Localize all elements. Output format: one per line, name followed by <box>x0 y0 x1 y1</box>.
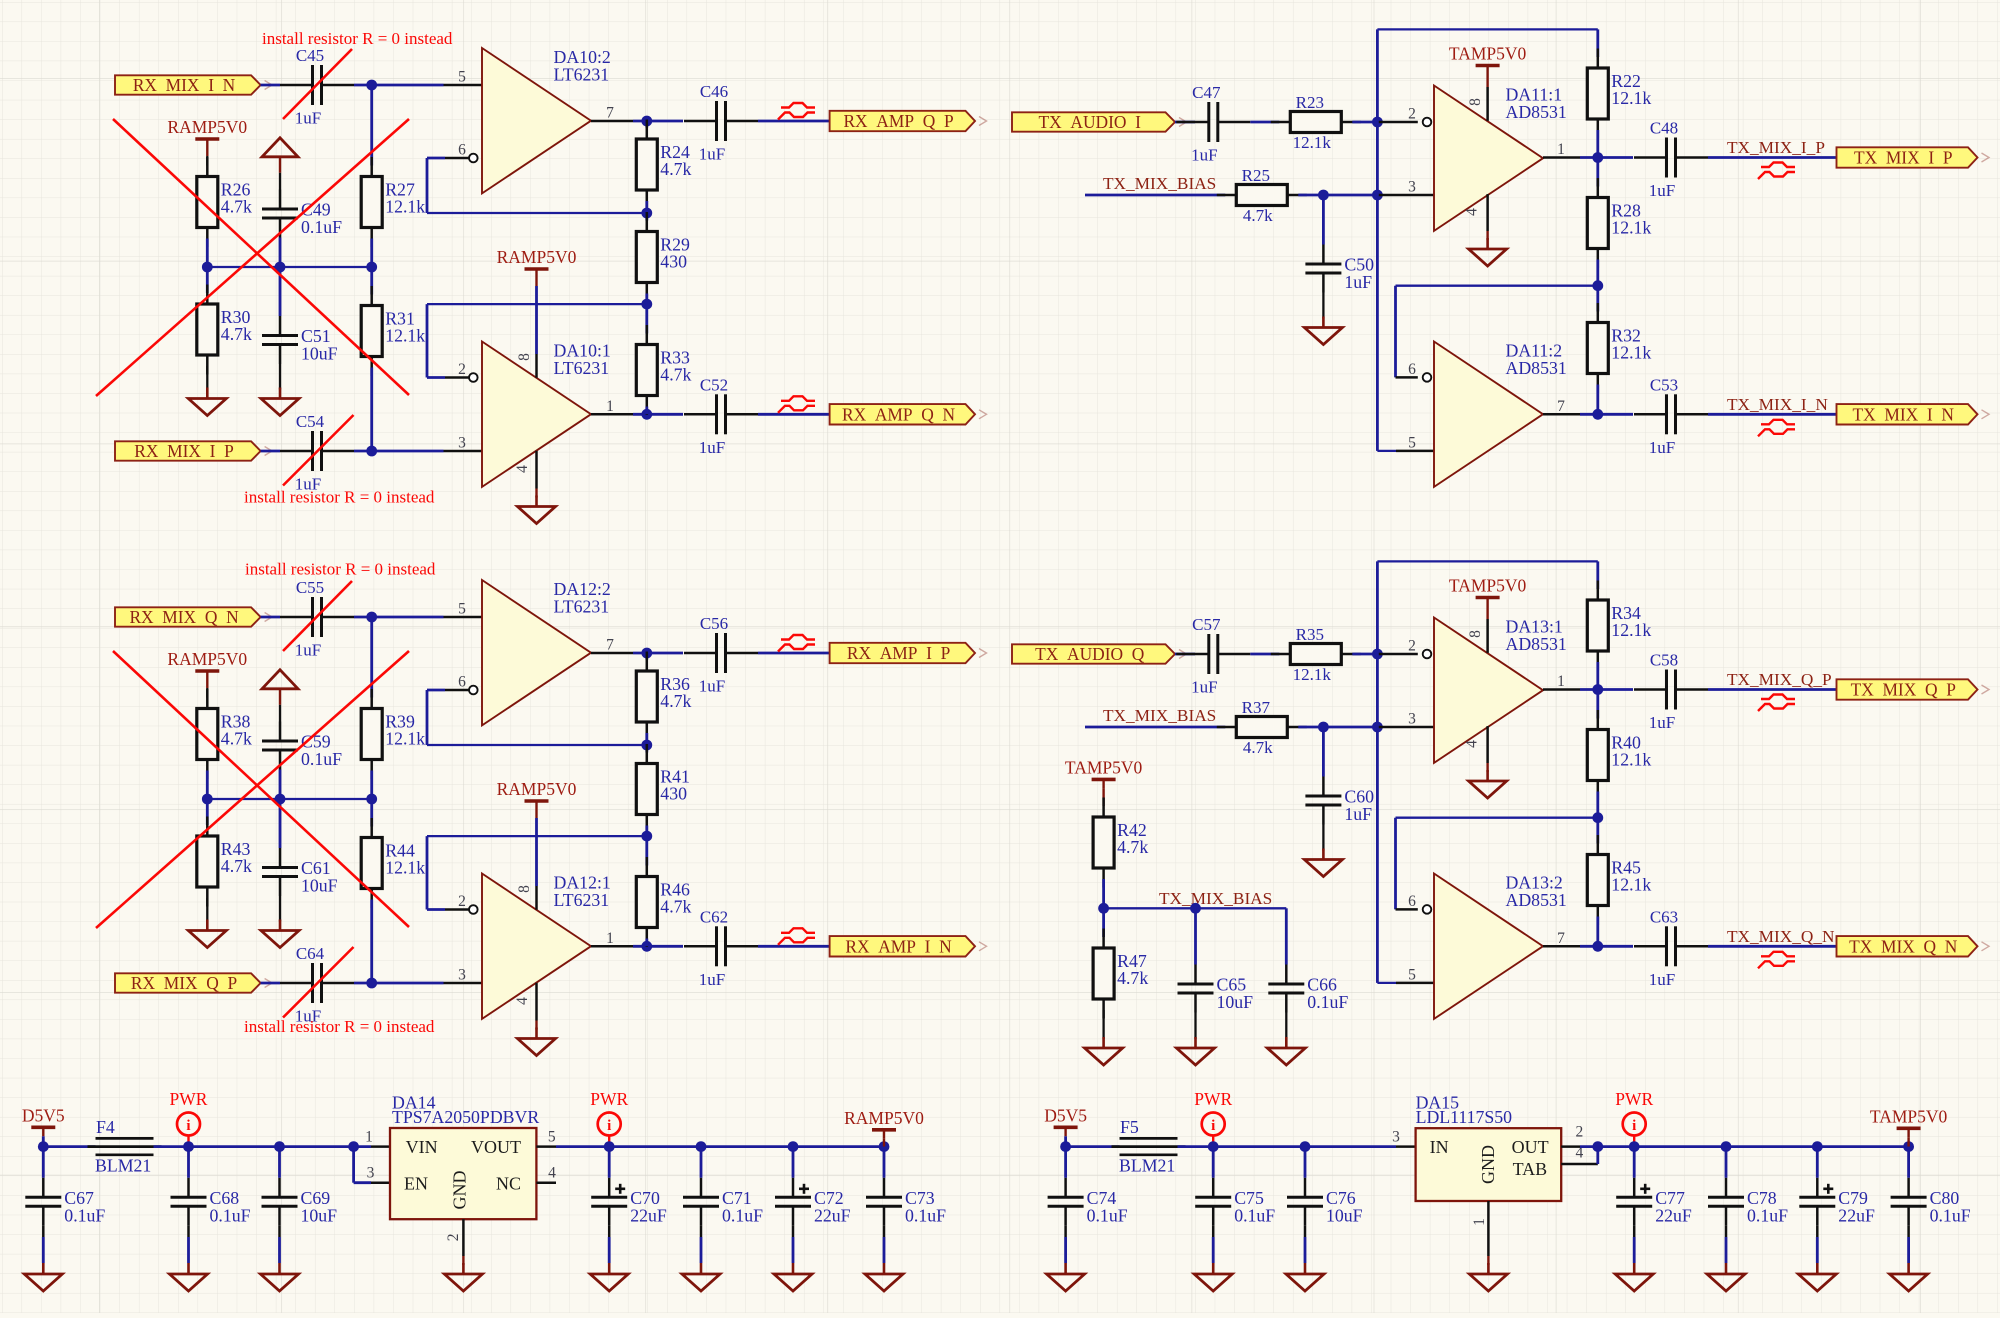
pin 3 wire <box>444 450 483 453</box>
svg-text:TAMP5V0: TAMP5V0 <box>1449 44 1527 64</box>
wire <box>1708 156 1837 159</box>
differential pair directive <box>1758 420 1795 437</box>
slash through C54 <box>283 415 354 486</box>
svg-text:0.1uF: 0.1uF <box>1747 1205 1788 1225</box>
ferrite bead F5 <box>1112 1117 1186 1176</box>
capacitor C61 <box>262 848 338 896</box>
junction <box>879 1141 890 1152</box>
junction <box>641 941 652 952</box>
svg-text:10uF: 10uF <box>1217 992 1254 1012</box>
svg-text:12.1k: 12.1k <box>1293 133 1332 152</box>
svg-text:RX AMP Q N: RX AMP Q N <box>842 404 955 424</box>
svg-text:C57: C57 <box>1192 615 1221 634</box>
power port RAMP5V0 <box>497 247 577 278</box>
pin 1 wire <box>1487 1201 1490 1256</box>
svg-text:BLM21: BLM21 <box>1119 1156 1175 1176</box>
svg-text:BLM21: BLM21 <box>95 1156 151 1176</box>
wire <box>206 771 209 800</box>
pin 6 wire <box>1396 908 1418 911</box>
wire <box>609 1145 701 1148</box>
ground <box>1469 238 1507 266</box>
wire <box>280 1145 354 1148</box>
ground <box>1085 1037 1123 1065</box>
svg-text:2: 2 <box>1408 106 1416 123</box>
resistor R35 <box>1271 625 1361 684</box>
capacitor C60 <box>1305 777 1374 825</box>
power port arrow <box>262 138 298 173</box>
wire <box>1376 561 1379 654</box>
svg-text:GND: GND <box>450 1171 470 1210</box>
resistor R32 <box>1587 303 1651 393</box>
op-amp DA13:1 <box>1434 617 1567 763</box>
feedback wire <box>1396 817 1598 819</box>
pin 2 wire <box>1561 1145 1580 1148</box>
svg-text:R23: R23 <box>1296 93 1324 112</box>
ground <box>1194 1263 1232 1291</box>
wire <box>206 267 209 293</box>
wire <box>1322 293 1324 319</box>
wire <box>1304 1237 1307 1263</box>
junction <box>38 1141 49 1152</box>
wire <box>645 294 648 305</box>
svg-text:C52: C52 <box>700 375 728 394</box>
wire <box>42 1136 45 1146</box>
wire <box>1817 1145 1908 1148</box>
junction <box>641 208 652 219</box>
pin 1 wire <box>591 413 633 416</box>
svg-text:install resistor R = 0 instead: install resistor R = 0 instead <box>262 29 453 48</box>
wire <box>1487 1256 1489 1265</box>
svg-text:1: 1 <box>1557 141 1565 158</box>
wire <box>261 616 280 619</box>
wire <box>206 156 208 166</box>
wire <box>43 1145 95 1148</box>
wire <box>1726 1145 1817 1148</box>
svg-text:OUT: OUT <box>1512 1137 1549 1157</box>
junction <box>348 1141 359 1152</box>
ground <box>1469 1263 1507 1291</box>
ground <box>1615 1263 1653 1291</box>
svg-text:TAMP5V0: TAMP5V0 <box>1870 1106 1948 1126</box>
ground <box>518 1028 556 1056</box>
wire <box>279 364 281 390</box>
svg-text:RAMP5V0: RAMP5V0 <box>844 1108 924 1128</box>
svg-text:TAMP5V0: TAMP5V0 <box>1065 757 1143 777</box>
pin 2 wire <box>427 376 445 379</box>
svg-text:0.1uF: 0.1uF <box>1307 992 1348 1012</box>
svg-text:0.1uF: 0.1uF <box>301 749 342 769</box>
svg-text:3: 3 <box>458 967 466 984</box>
junction <box>1592 1141 1603 1152</box>
pin 8 wire <box>1486 87 1489 121</box>
svg-text:TX_MIX_I_N: TX_MIX_I_N <box>1727 395 1828 414</box>
wire <box>793 1145 884 1148</box>
pin 1 wire <box>1543 688 1580 691</box>
svg-text:LT6231: LT6231 <box>554 597 610 617</box>
wire <box>1394 286 1397 378</box>
slash through C55 <box>283 581 352 651</box>
svg-text:4.7k: 4.7k <box>660 897 691 917</box>
feedback wire <box>1396 285 1598 287</box>
svg-text:3: 3 <box>1408 711 1416 728</box>
wire <box>645 826 648 837</box>
wire <box>1304 1226 1307 1237</box>
wire <box>1816 1237 1819 1263</box>
svg-text:1: 1 <box>1471 1218 1488 1226</box>
ground <box>1267 1037 1305 1065</box>
svg-text:2: 2 <box>1576 1124 1584 1141</box>
wire <box>792 1147 795 1178</box>
svg-text:5: 5 <box>1408 434 1416 451</box>
port RX_AMP_Q_P <box>830 111 987 131</box>
wire <box>608 1226 611 1237</box>
svg-text:12.1k: 12.1k <box>385 326 425 346</box>
svg-text:1uF: 1uF <box>699 145 725 164</box>
svg-text:4.7k: 4.7k <box>221 856 252 876</box>
capacitor C77 <box>1616 1178 1692 1226</box>
wire <box>462 1256 464 1265</box>
wire <box>645 939 648 947</box>
wire <box>206 148 208 156</box>
svg-text:AD8531: AD8531 <box>1506 890 1567 910</box>
junction <box>183 1141 194 1152</box>
junction <box>275 262 286 273</box>
svg-text:22uF: 22uF <box>1655 1205 1692 1225</box>
differential pair directive <box>778 103 815 120</box>
svg-text:8: 8 <box>1467 630 1484 638</box>
wire <box>426 304 429 377</box>
wire <box>426 158 429 213</box>
wire <box>535 286 538 354</box>
wire <box>535 1021 537 1030</box>
wire <box>261 450 280 453</box>
pin 8 wire <box>1486 619 1489 653</box>
wire <box>1212 1147 1215 1178</box>
junction <box>1903 1141 1914 1152</box>
svg-text:10uF: 10uF <box>1326 1205 1363 1225</box>
slash through C64 <box>283 947 354 1018</box>
resistor R47 <box>1093 929 1148 1019</box>
wire <box>1376 195 1379 451</box>
pin 4 wire <box>1486 194 1489 231</box>
wire <box>535 278 537 286</box>
power port D5V5 <box>1044 1105 1087 1136</box>
power port TAMP5V0 <box>1870 1106 1948 1137</box>
wire <box>1352 653 1377 656</box>
svg-text:TPS7A2050PDBVR: TPS7A2050PDBVR <box>392 1107 539 1127</box>
wire <box>1376 29 1379 122</box>
wire <box>1580 945 1633 948</box>
svg-text:10uF: 10uF <box>301 344 338 364</box>
svg-text:AD8531: AD8531 <box>1506 102 1567 122</box>
junction <box>1592 684 1603 695</box>
wire <box>370 799 373 827</box>
svg-text:TX MIX I P: TX MIX I P <box>1854 148 1953 168</box>
wire <box>1907 1137 1909 1146</box>
svg-text:i: i <box>1632 1118 1636 1134</box>
svg-text:12.1k: 12.1k <box>1611 875 1651 895</box>
svg-text:4.7k: 4.7k <box>1243 206 1273 225</box>
svg-text:12.1k: 12.1k <box>1611 88 1651 108</box>
resistor R25 <box>1217 166 1307 225</box>
svg-text:IN: IN <box>1430 1137 1449 1157</box>
capacitor C58 <box>1634 651 1708 733</box>
wire <box>1064 1237 1067 1263</box>
capacitor C53 <box>1634 375 1708 457</box>
svg-text:0.1uF: 0.1uF <box>722 1205 763 1225</box>
svg-text:1uF: 1uF <box>1191 678 1217 697</box>
cross-out X mark <box>96 651 409 928</box>
wire <box>1596 662 1599 690</box>
wire <box>633 413 683 416</box>
svg-text:PWR: PWR <box>170 1089 208 1109</box>
port TX_MIX_Q_P <box>1837 679 1990 699</box>
wire <box>370 900 373 984</box>
ground <box>1304 317 1342 345</box>
capacitor C51 <box>262 316 338 364</box>
svg-text:LT6231: LT6231 <box>554 890 610 910</box>
svg-text:TX_MIX_BIAS: TX_MIX_BIAS <box>1159 889 1272 908</box>
wire <box>1596 158 1599 187</box>
svg-text:1uF: 1uF <box>1191 146 1217 165</box>
wire <box>1305 1145 1396 1148</box>
wire <box>1376 727 1379 983</box>
wire <box>279 238 282 268</box>
ground <box>1047 1263 1085 1291</box>
bias wire <box>207 798 371 800</box>
pin 7 wire <box>1543 945 1580 948</box>
svg-text:4.7k: 4.7k <box>660 159 691 179</box>
wire <box>154 1145 189 1148</box>
wire <box>426 836 429 909</box>
wire <box>354 84 444 87</box>
wire <box>1486 75 1488 88</box>
wire <box>1708 945 1837 948</box>
wire <box>370 368 373 452</box>
svg-text:RAMP5V0: RAMP5V0 <box>167 117 247 137</box>
junction <box>696 1141 707 1152</box>
port TX_MIX_I_N <box>1837 404 1990 424</box>
ground <box>188 920 226 948</box>
capacitor C45 <box>280 46 354 128</box>
junction <box>1721 1141 1732 1152</box>
capacitor C48 <box>1634 119 1708 201</box>
svg-text:TX_MIX_BIAS: TX_MIX_BIAS <box>1103 174 1216 193</box>
resistor R27 <box>361 157 425 247</box>
resistor R39 <box>361 689 425 779</box>
wire <box>370 617 373 698</box>
wire <box>1212 1226 1215 1237</box>
pin 3 wire <box>1396 1145 1416 1148</box>
wire <box>700 1147 703 1178</box>
svg-text:0.1uF: 0.1uF <box>1930 1205 1971 1225</box>
svg-text:TX MIX I N: TX MIX I N <box>1853 404 1955 424</box>
wire <box>426 690 429 745</box>
wire <box>1486 231 1488 240</box>
wire <box>1633 1226 1636 1237</box>
capacitor C63 <box>1634 907 1708 989</box>
junction <box>1372 190 1383 201</box>
differential pair directive <box>1758 163 1795 180</box>
resistor R33 <box>636 325 691 415</box>
svg-text:GND: GND <box>1478 1145 1498 1184</box>
capacitor C68 <box>171 1178 251 1226</box>
wire <box>633 945 683 948</box>
svg-text:PWR: PWR <box>590 1089 628 1109</box>
capacitor C70 <box>591 1178 667 1226</box>
wire <box>1085 726 1225 729</box>
wire <box>758 413 830 416</box>
svg-text:RX AMP Q P: RX AMP Q P <box>843 111 953 131</box>
resistor R37 <box>1217 698 1307 757</box>
svg-text:8: 8 <box>516 885 533 893</box>
ground <box>170 1263 208 1291</box>
wire <box>1486 607 1488 620</box>
wire <box>1596 792 1599 818</box>
junction <box>366 262 377 273</box>
wire <box>279 896 281 922</box>
differential pair directive <box>778 635 815 652</box>
wire <box>279 770 282 800</box>
junction <box>1629 1141 1640 1152</box>
wire <box>1178 1145 1214 1148</box>
junction <box>1592 812 1603 823</box>
resistor R23 <box>1271 93 1361 152</box>
ground <box>1798 1263 1836 1291</box>
pin 4 wire <box>535 451 538 489</box>
pin 6 wire <box>1396 376 1418 379</box>
power port RAMP5V0 <box>497 779 577 810</box>
svg-text:1: 1 <box>606 398 614 415</box>
power port TAMP5V0 <box>1449 576 1527 607</box>
wire <box>758 652 830 655</box>
op-amp DA13:2 <box>1434 873 1567 1019</box>
wire <box>370 771 373 800</box>
svg-text:3: 3 <box>458 435 466 452</box>
svg-text:12.1k: 12.1k <box>1293 665 1332 684</box>
pin 5 wire <box>1377 450 1396 452</box>
junction <box>1592 152 1603 163</box>
svg-text:1uF: 1uF <box>699 970 725 989</box>
wire <box>370 239 373 268</box>
pin 4 wire <box>1486 726 1489 763</box>
wire <box>1304 1147 1307 1178</box>
svg-text:7: 7 <box>1557 398 1565 415</box>
svg-text:TX MIX Q P: TX MIX Q P <box>1851 680 1956 700</box>
svg-text:0.1uF: 0.1uF <box>301 217 342 237</box>
svg-text:6: 6 <box>458 142 466 159</box>
wire <box>206 239 209 268</box>
power indicator PWR <box>1194 1089 1232 1147</box>
pin 4 wire <box>1561 1163 1598 1166</box>
svg-text:8: 8 <box>1467 98 1484 106</box>
wire <box>1250 653 1279 656</box>
wire <box>1725 1147 1728 1178</box>
wire <box>1064 1226 1067 1237</box>
ground <box>261 1263 299 1291</box>
wire <box>1212 1237 1215 1263</box>
wire <box>1596 260 1599 286</box>
wire <box>645 407 648 415</box>
svg-text:5: 5 <box>1408 966 1416 983</box>
resistor R31 <box>361 286 425 376</box>
wire <box>206 688 208 698</box>
pin 3 wire <box>371 1181 390 1184</box>
pin 6 wire <box>427 689 445 692</box>
ground <box>518 496 556 524</box>
port RX_MIX_I_P <box>115 441 272 461</box>
capacitor C71 <box>683 1178 763 1226</box>
ground <box>774 1263 812 1291</box>
wire <box>700 1237 703 1263</box>
svg-text:F4: F4 <box>96 1117 115 1137</box>
svg-text:12.1k: 12.1k <box>385 197 425 217</box>
svg-text:C58: C58 <box>1650 651 1678 670</box>
svg-text:i: i <box>607 1118 611 1134</box>
resistor R28 <box>1587 178 1651 268</box>
wire <box>608 1147 611 1178</box>
port TX_MIX_Q_N <box>1837 936 1990 956</box>
svg-text:6: 6 <box>1408 893 1416 910</box>
svg-text:C64: C64 <box>296 944 325 963</box>
wire <box>1634 1145 1726 1148</box>
svg-text:0.1uF: 0.1uF <box>210 1205 251 1225</box>
ground <box>1177 1037 1215 1065</box>
power port D5V5 <box>22 1105 65 1136</box>
wire <box>1194 908 1197 964</box>
svg-text:0.1uF: 0.1uF <box>64 1205 105 1225</box>
svg-text:10uF: 10uF <box>301 1205 338 1225</box>
svg-text:C63: C63 <box>1650 907 1678 926</box>
svg-text:4.7k: 4.7k <box>660 691 691 711</box>
svg-text:6: 6 <box>1408 361 1416 378</box>
wire <box>1175 121 1195 124</box>
wire <box>1596 286 1599 312</box>
capacitor C69 <box>262 1178 338 1226</box>
wire <box>1596 690 1599 719</box>
pin 3 wire <box>1377 194 1434 197</box>
wire <box>370 85 373 166</box>
svg-text:4.7k: 4.7k <box>1243 738 1273 757</box>
wire <box>1633 1237 1636 1263</box>
wire <box>1580 1145 1598 1148</box>
svg-text:4.7k: 4.7k <box>660 365 691 385</box>
wire <box>206 898 208 922</box>
svg-text:1uF: 1uF <box>699 438 725 457</box>
wire <box>1102 908 1105 937</box>
wire <box>261 982 280 985</box>
op-amp DA10:1 <box>482 341 611 487</box>
svg-text:RAMP5V0: RAMP5V0 <box>167 649 247 669</box>
cross-out X mark <box>96 119 409 396</box>
svg-text:TX AUDIO I: TX AUDIO I <box>1039 112 1142 132</box>
wire <box>792 1226 795 1237</box>
wire <box>279 705 281 722</box>
svg-text:22uF: 22uF <box>814 1205 851 1225</box>
wire <box>1596 561 1599 589</box>
svg-text:RX MIX Q N: RX MIX Q N <box>129 607 239 627</box>
wire <box>535 489 537 498</box>
svg-text:R25: R25 <box>1242 166 1270 185</box>
junction <box>274 1141 285 1152</box>
wire <box>279 267 282 316</box>
wire <box>1596 1147 1599 1164</box>
port RX_MIX_Q_P <box>115 973 272 993</box>
svg-text:i: i <box>1211 1118 1215 1134</box>
ground <box>590 1263 628 1291</box>
wire <box>354 450 444 453</box>
wire <box>1816 1226 1819 1237</box>
